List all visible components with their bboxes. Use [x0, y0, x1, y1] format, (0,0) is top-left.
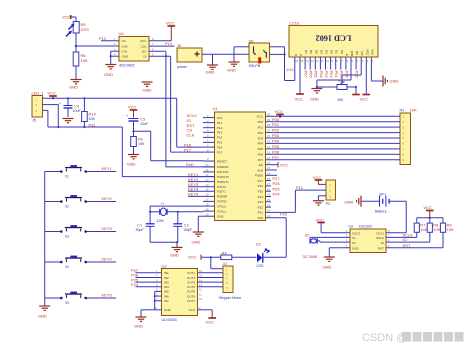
- svg-text:C2: C2: [184, 223, 190, 228]
- svg-text:KEY3: KEY3: [102, 226, 113, 231]
- svg-text:14: 14: [306, 59, 309, 63]
- switch S6: [249, 39, 270, 69]
- svg-text:VCC: VCC: [316, 218, 325, 223]
- svg-text:P20: P20: [258, 216, 264, 220]
- svg-text:GND: GND: [69, 85, 78, 90]
- svg-text:P03: P03: [272, 133, 280, 138]
- svg-text:P06: P06: [258, 153, 264, 157]
- wire power + to switch: [202, 53, 249, 55]
- svg-text:P00: P00: [272, 117, 280, 122]
- svg-text:Battery: Battery: [375, 210, 387, 214]
- push button S3 + net KEY3: [45, 225, 116, 238]
- svg-text:X2: X2: [305, 232, 311, 237]
- connector J2 Stepper Motor: [219, 261, 243, 300]
- svg-text:D7: D7: [304, 50, 308, 54]
- svg-text:S1: S1: [65, 175, 69, 179]
- net label CS stub: [99, 36, 119, 41]
- ground (reset): [127, 155, 140, 167]
- net RST: [386, 243, 443, 248]
- node (divider): [75, 45, 77, 47]
- svg-text:GND: GND: [104, 72, 113, 77]
- net labels P27-P24: [273, 176, 281, 197]
- svg-text:P37RD: P37RD: [217, 200, 228, 204]
- svg-text:10uF: 10uF: [73, 109, 82, 113]
- svg-text:34: 34: [267, 145, 270, 149]
- svg-text:10: 10: [206, 163, 209, 167]
- svg-text:OUT5: OUT5: [187, 290, 195, 294]
- svg-text:P11: P11: [296, 185, 304, 190]
- svg-text:U3: U3: [162, 264, 168, 269]
- svg-text:Y1: Y1: [161, 202, 165, 206]
- svg-text:C3: C3: [140, 117, 146, 122]
- svg-text:VCC: VCC: [189, 308, 196, 312]
- svg-text:R10: R10: [89, 112, 97, 117]
- svg-text:GND: GND: [170, 253, 179, 258]
- ULN IN5-7 + GND tied to ground: [134, 291, 162, 328]
- svg-text:S5: S5: [65, 301, 69, 305]
- ULN VCC pin down flag: [198, 310, 217, 325]
- svg-text:CLK: CLK: [187, 133, 195, 138]
- svg-text:P31TXD: P31TXD: [217, 170, 229, 174]
- push button S2 + net KEY2: [45, 195, 116, 208]
- svg-text:CLK: CLK: [141, 44, 147, 48]
- svg-text:P02: P02: [258, 131, 264, 135]
- ground (C4): [63, 119, 74, 123]
- svg-text:P32INT0: P32INT0: [217, 175, 229, 179]
- svg-text:VCC: VCC: [275, 109, 284, 114]
- svg-text:30pF: 30pF: [184, 228, 193, 232]
- capacitor C2 30pF: [173, 223, 192, 243]
- svg-text:P27: P27: [258, 179, 264, 183]
- svg-text:39: 39: [267, 118, 270, 122]
- svg-text:IN1: IN1: [164, 271, 169, 275]
- svg-text:PSEN: PSEN: [255, 174, 263, 178]
- svg-text:38: 38: [267, 123, 270, 127]
- svg-text:P24: P24: [273, 192, 281, 197]
- svg-text:GND: GND: [310, 97, 319, 102]
- svg-text:P10: P10: [217, 116, 223, 120]
- MCU left net labels: [184, 113, 199, 197]
- svg-text:P26: P26: [258, 184, 264, 188]
- svg-text:IN6: IN6: [164, 294, 169, 298]
- svg-text:P00: P00: [258, 120, 264, 124]
- svg-text:23: 23: [267, 203, 270, 207]
- svg-text:26: 26: [267, 187, 270, 191]
- svg-text:15: 15: [301, 59, 304, 63]
- wire node to ADC CH0: [76, 45, 119, 47]
- svg-text:15: 15: [199, 274, 202, 278]
- button rail wire: [44, 172, 46, 306]
- MCU right pin stubs: [266, 116, 279, 207]
- push button S5 + net KEY5: [45, 292, 116, 305]
- svg-text:LED_1: LED_1: [32, 91, 45, 96]
- svg-text:D2: D2: [330, 50, 334, 54]
- svg-text:CH1: CH1: [122, 50, 128, 54]
- svg-text:10: 10: [326, 59, 329, 63]
- svg-text:DO: DO: [142, 50, 147, 54]
- svg-text:S2: S2: [65, 205, 69, 209]
- pullups rail + VCC flag: [417, 205, 443, 223]
- svg-text:EA: EA: [259, 163, 263, 167]
- svg-text:13: 13: [206, 178, 209, 182]
- svg-text:12M: 12M: [157, 219, 164, 223]
- watermark: [362, 332, 464, 344]
- wire J5 pin3 to MCU P30: [43, 110, 48, 127]
- EA tied to VCC: [278, 162, 289, 167]
- LCD pin stubs: [295, 57, 372, 64]
- svg-text:KEY5: KEY5: [102, 293, 113, 298]
- wire VCC drop to stepper pin1: [211, 257, 223, 268]
- wire bus P00-P07 + VCC: [276, 116, 395, 160]
- svg-text:28: 28: [267, 177, 270, 181]
- svg-text:X1: X1: [352, 236, 356, 240]
- ground (divider): [69, 80, 82, 90]
- wire XTAL1 row: [167, 211, 203, 224]
- svg-text:15: 15: [206, 188, 209, 192]
- svg-text:Stepper Motor: Stepper Motor: [219, 296, 243, 300]
- svg-text:10K: 10K: [337, 98, 344, 102]
- connector J6 power: [177, 43, 202, 69]
- svg-text:SW-PB: SW-PB: [249, 64, 261, 68]
- svg-text:VCC: VCC: [365, 49, 369, 56]
- svg-text:P07: P07: [304, 71, 309, 79]
- svg-text:GND: GND: [206, 70, 215, 75]
- crystal Y1 12M: [150, 202, 167, 224]
- svg-text:VCC: VCC: [360, 97, 369, 102]
- battery + to VCC1: [386, 201, 406, 233]
- svg-text:P22: P22: [258, 205, 264, 209]
- LCD A to VCC: [295, 64, 304, 102]
- svg-text:ADC0832: ADC0832: [119, 64, 135, 68]
- ULN right pin numbers: [199, 269, 202, 310]
- svg-text:36: 36: [267, 134, 270, 138]
- svg-text:VCC: VCC: [257, 115, 264, 119]
- svg-text:VCC: VCC: [166, 21, 175, 26]
- crystal X1 32.768K: [303, 232, 351, 259]
- net SCLK: [386, 233, 417, 238]
- svg-text:DS1302: DS1302: [359, 225, 372, 229]
- svg-text:KEY4: KEY4: [102, 257, 113, 262]
- svg-text:P05: P05: [272, 144, 280, 149]
- svg-text:VO: VO: [360, 51, 364, 56]
- LCD K drop: [294, 64, 296, 81]
- svg-text:LCD1: LCD1: [290, 21, 301, 26]
- power flag VCC (reset): [128, 105, 137, 118]
- svg-text:OUT2: OUT2: [187, 276, 195, 280]
- svg-text:P26: P26: [273, 181, 281, 186]
- svg-text:VCC: VCC: [140, 39, 147, 43]
- svg-text:P03: P03: [324, 71, 329, 79]
- ground (ADC): [104, 65, 116, 78]
- svg-text:IN4: IN4: [164, 285, 169, 289]
- svg-text:LED: LED: [257, 264, 264, 268]
- svg-text:RS: RS: [355, 51, 359, 55]
- LCD data drops + vertical net labels: [305, 64, 356, 70]
- resistor R10: [82, 98, 97, 128]
- node RST + wire to MCU RESET: [132, 130, 203, 161]
- battery BT1: [375, 192, 389, 213]
- svg-text:13: 13: [199, 283, 202, 287]
- svg-text:P13: P13: [99, 36, 107, 41]
- svg-text:P12: P12: [217, 126, 223, 130]
- svg-text:P02: P02: [272, 128, 280, 133]
- svg-text:DI: DI: [144, 55, 147, 59]
- svg-text:CH0: CH0: [122, 44, 128, 48]
- svg-text:P13: P13: [217, 131, 223, 135]
- svg-text:P16: P16: [217, 145, 223, 149]
- resistor R9: [440, 223, 454, 248]
- svg-text:27: 27: [267, 182, 270, 186]
- svg-text:P01: P01: [272, 122, 280, 127]
- svg-text:P04: P04: [319, 71, 324, 79]
- svg-text:GND: GND: [352, 247, 360, 251]
- svg-text:GND: GND: [192, 240, 201, 245]
- svg-text:XTAL2: XTAL2: [217, 204, 226, 208]
- svg-text:P25: P25: [258, 190, 264, 194]
- svg-text:P25: P25: [355, 71, 360, 79]
- ULN left pin numbers: [155, 269, 158, 310]
- svg-text:U1: U1: [213, 106, 219, 111]
- svg-text:BT1: BT1: [380, 192, 387, 196]
- MCU right pin numbers: [267, 112, 270, 217]
- svg-text:VCC: VCC: [206, 320, 215, 325]
- P3 pin3 to ground: [313, 196, 326, 205]
- switch left upper pin to ground: [227, 47, 249, 73]
- svg-text:VCC: VCC: [280, 162, 289, 167]
- svg-text:X2: X2: [352, 241, 356, 245]
- svg-text:GND: GND: [323, 265, 332, 270]
- svg-text:12: 12: [316, 59, 319, 63]
- svg-text:P17: P17: [184, 147, 192, 152]
- wire cap rail + ground: [150, 241, 182, 257]
- svg-text:35: 35: [267, 140, 270, 144]
- svg-text:RxD: RxD: [186, 162, 194, 167]
- svg-text:P36WR: P36WR: [217, 195, 228, 199]
- svg-text:C1: C1: [137, 223, 143, 228]
- svg-text:LCD 1602: LCD 1602: [316, 34, 352, 43]
- power flag VCC (photoresistor): [62, 15, 76, 22]
- wire XTAL2 row: [149, 206, 203, 224]
- svg-text:P23: P23: [258, 200, 264, 204]
- ULN IN1-IN4 input stubs + labels: [136, 273, 162, 287]
- svg-text:10K: 10K: [420, 227, 427, 232]
- svg-text:P06: P06: [309, 71, 314, 79]
- svg-text:14: 14: [206, 183, 209, 187]
- svg-text:RW: RW: [350, 51, 354, 56]
- svg-text:31: 31: [267, 161, 270, 165]
- LCD VSS to ground (right): [371, 64, 398, 87]
- svg-text:VCC2: VCC2: [352, 231, 360, 235]
- svg-text:P24: P24: [131, 282, 139, 287]
- svg-text:32: 32: [267, 156, 270, 160]
- svg-text:P34T0: P34T0: [217, 185, 226, 189]
- ground (buttons): [38, 306, 50, 319]
- ground (power): [206, 54, 219, 74]
- resistor R7: [414, 223, 428, 238]
- svg-text:P14: P14: [165, 41, 173, 46]
- svg-text:VCC: VCC: [48, 91, 57, 96]
- svg-text:GND: GND: [390, 79, 399, 84]
- svg-text:VCC: VCC: [295, 97, 304, 102]
- svg-text:P14: P14: [217, 136, 223, 140]
- svg-text:GND: GND: [227, 68, 236, 73]
- svg-text:D3: D3: [325, 50, 329, 54]
- MCU U1 body: [213, 106, 266, 221]
- svg-text:E: E: [345, 54, 349, 56]
- svg-text:20: 20: [206, 212, 209, 216]
- switch right pins to LCD backlight K: [270, 47, 295, 81]
- capacitor C1 30pF: [136, 223, 155, 243]
- driver U3 ULN2003 body: [162, 264, 198, 323]
- svg-text:KEY2: KEY2: [102, 196, 113, 201]
- svg-text:30pF: 30pF: [136, 228, 145, 232]
- svg-text:P05: P05: [258, 147, 264, 151]
- svg-text:D6: D6: [309, 50, 313, 54]
- svg-text:P01: P01: [258, 125, 264, 129]
- svg-text:RST: RST: [403, 243, 412, 248]
- svg-text:P05: P05: [314, 71, 319, 79]
- LCD pin names (vertical): [294, 49, 375, 56]
- svg-text:24: 24: [267, 198, 270, 202]
- svg-text:SCLK: SCLK: [376, 236, 384, 240]
- svg-text:IN2: IN2: [164, 276, 169, 280]
- wire J5 pin2 to MCU P31: [43, 105, 215, 177]
- svg-text:OUT7: OUT7: [187, 299, 195, 303]
- svg-text:VSS: VSS: [370, 49, 374, 55]
- svg-text:P3: P3: [326, 202, 330, 206]
- svg-text:P04: P04: [258, 142, 264, 146]
- svg-text:IN7: IN7: [164, 299, 169, 303]
- svg-text:D5: D5: [314, 50, 318, 54]
- svg-text:OUT4: OUT4: [187, 285, 195, 289]
- resistor R2: [131, 131, 145, 154]
- photoresistor R5: [66, 20, 89, 37]
- svg-text:D4: D4: [319, 50, 323, 54]
- power flag VCC (LED): [188, 255, 221, 261]
- power flag VCC (ADC): [149, 21, 175, 41]
- net label CLK stub: [149, 41, 175, 46]
- svg-text:P27: P27: [273, 176, 281, 181]
- svg-text:RESET: RESET: [217, 159, 227, 163]
- svg-text:18: 18: [206, 202, 209, 206]
- svg-text:10K: 10K: [433, 227, 440, 232]
- svg-text:S3: S3: [65, 235, 69, 239]
- VCC2 to VCC flag: [316, 218, 351, 233]
- svg-text:P07: P07: [258, 158, 264, 162]
- MCU left pin numbers: [206, 114, 210, 217]
- svg-text:10: 10: [199, 297, 202, 301]
- svg-text:IO: IO: [403, 237, 407, 242]
- svg-text:P24: P24: [258, 195, 264, 199]
- svg-text:GND: GND: [122, 55, 130, 59]
- svg-text:10K: 10K: [410, 107, 417, 112]
- svg-text:CDS: CDS: [81, 27, 90, 32]
- capacitor C3: [126, 114, 149, 131]
- svg-text:29: 29: [267, 172, 270, 176]
- svg-text:25: 25: [267, 193, 270, 197]
- LCD pin numbers: [295, 59, 374, 63]
- svg-text:P06: P06: [272, 149, 280, 154]
- svg-text:1G4: 1G4: [286, 67, 294, 72]
- svg-text:ULN2003: ULN2003: [162, 318, 177, 322]
- svg-text:10K: 10K: [138, 142, 145, 146]
- svg-text:GND: GND: [134, 324, 143, 329]
- wires ULN OUT1-4 to stepper: [198, 273, 224, 287]
- wire ADC DI down to P17: [149, 55, 203, 152]
- svg-text:P07: P07: [272, 155, 280, 160]
- resistor R8: [427, 223, 441, 243]
- svg-text:P15: P15: [217, 141, 223, 145]
- svg-text:power: power: [177, 65, 188, 69]
- svg-text:13: 13: [311, 59, 314, 63]
- stray ground label: [142, 82, 153, 93]
- connector J5 LED_1: [32, 91, 45, 123]
- svg-text:P26: P26: [344, 71, 349, 79]
- svg-text:32.768K: 32.768K: [303, 254, 318, 259]
- svg-text:A: A: [299, 54, 303, 56]
- rtc U2 DS1302: [346, 225, 390, 253]
- svg-text:K: K: [294, 54, 298, 56]
- svg-text:P21: P21: [258, 211, 264, 215]
- wire ADC DO down-left to reset row: [149, 51, 215, 167]
- svg-text:P25: P25: [273, 186, 281, 191]
- svg-text:16: 16: [206, 193, 209, 197]
- svg-text:RST: RST: [378, 247, 384, 251]
- ground (battery, horizontal): [345, 196, 380, 207]
- svg-text:S4: S4: [65, 265, 69, 269]
- svg-text:U4: U4: [119, 31, 125, 36]
- svg-text:ALE: ALE: [257, 168, 263, 172]
- LCD RW to ground: [310, 64, 351, 102]
- svg-text:CS: CS: [122, 39, 126, 43]
- power flag VCC (J5): [48, 91, 57, 99]
- svg-text:10K: 10K: [81, 58, 88, 63]
- svg-text:P17: P17: [217, 150, 223, 154]
- svg-text:VCC: VCC: [62, 15, 71, 20]
- svg-text:R1: R1: [400, 108, 405, 112]
- svg-text:KEY1: KEY1: [102, 166, 113, 171]
- svg-text:U2: U2: [349, 225, 354, 229]
- svg-text:17: 17: [206, 198, 209, 202]
- svg-text:GND: GND: [345, 199, 354, 204]
- svg-text:OUT6: OUT6: [187, 294, 195, 298]
- svg-text:37: 37: [267, 129, 270, 133]
- wire top rail J5 pin1 to P16: [43, 97, 204, 147]
- svg-text:P02: P02: [329, 71, 334, 79]
- DS1302 GND pin to ground: [323, 248, 351, 270]
- LCD1 body (rotated 180): [289, 21, 378, 58]
- svg-text:GND: GND: [164, 308, 172, 312]
- resistor pack RP1 10K: [395, 107, 417, 164]
- svg-text:P20: P20: [280, 211, 288, 216]
- svg-text:14: 14: [199, 278, 202, 282]
- svg-text:J5: J5: [32, 119, 36, 123]
- svg-text:10K: 10K: [89, 117, 96, 121]
- push button S1 + net KEY1: [45, 165, 116, 178]
- svg-text:12: 12: [199, 288, 202, 292]
- svg-text:P11: P11: [217, 121, 222, 125]
- svg-text:P03: P03: [258, 136, 264, 140]
- svg-text:+: +: [59, 102, 61, 106]
- power flag VCC (MCU pin40): [275, 109, 284, 117]
- resistor R6 10K: [73, 46, 88, 79]
- svg-text:P30RXD: P30RXD: [217, 165, 230, 169]
- potentiometer R3 10K: [316, 64, 361, 103]
- svg-text:XTAL1: XTAL1: [217, 209, 226, 213]
- svg-text:GND: GND: [217, 215, 225, 219]
- svg-text:R2: R2: [138, 137, 144, 142]
- svg-text:11: 11: [321, 59, 324, 63]
